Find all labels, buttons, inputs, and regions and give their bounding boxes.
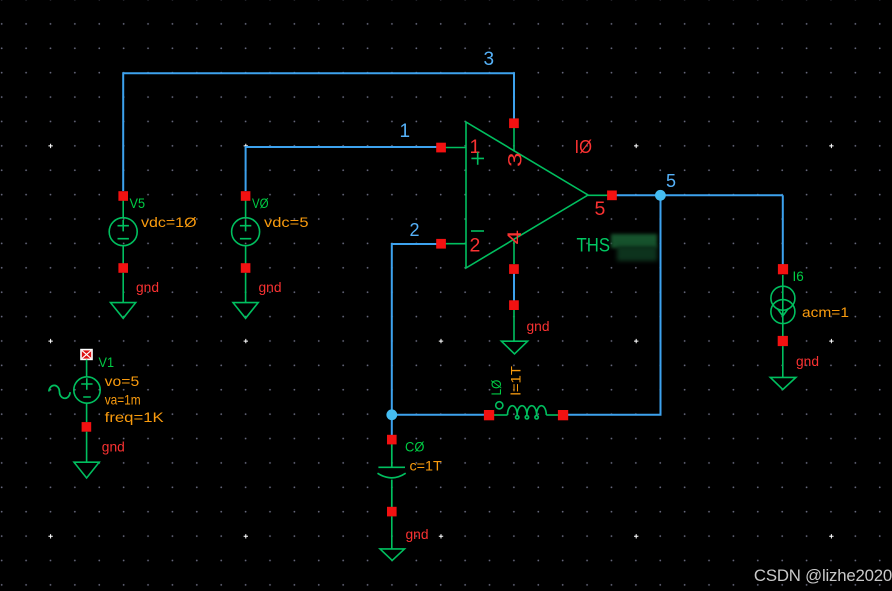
wire junction to inductor left xyxy=(392,414,489,416)
svg-text:4: 4 xyxy=(504,230,526,245)
pin square op-amp minus input xyxy=(436,239,446,249)
watermark xyxy=(754,566,892,586)
pin square gnd below op-amp xyxy=(509,300,519,310)
wire net 3 xyxy=(123,73,514,191)
gnd symbol below V5 xyxy=(111,273,136,319)
svg-text:V1: V1 xyxy=(99,355,115,370)
svg-text:vo=5: vo=5 xyxy=(105,373,140,389)
wire op-amp pin4 to gnd pin xyxy=(513,272,515,302)
gnd symbol below I6 xyxy=(770,346,796,389)
svg-text:gnd: gnd xyxy=(406,527,429,542)
svg-text:gnd: gnd xyxy=(136,280,159,295)
svg-text:1: 1 xyxy=(400,121,411,142)
pin square V5 minus xyxy=(118,263,128,273)
pin square I6 top xyxy=(778,264,788,274)
svg-text:1: 1 xyxy=(470,136,481,158)
sine squiggle of V1 xyxy=(49,385,70,398)
svg-text:vdc=5: vdc=5 xyxy=(264,214,309,230)
svg-text:I6: I6 xyxy=(793,269,804,284)
plus sign inside op-amp xyxy=(471,152,484,165)
svg-text:V5: V5 xyxy=(130,196,146,211)
pin square L0 right xyxy=(558,410,568,420)
svg-text:l=1T: l=1T xyxy=(509,366,524,396)
inductor L0 symbol xyxy=(494,402,558,419)
op-amp top supply stub xyxy=(513,124,515,152)
svg-text:5: 5 xyxy=(666,171,676,191)
gnd symbol below V0 xyxy=(233,273,258,319)
op-amp U triangle xyxy=(466,122,588,268)
wire net 1 xyxy=(246,147,441,191)
pin square V1 minus xyxy=(82,422,92,432)
wire I6 branch vertical xyxy=(782,195,784,266)
pin square I6 bottom xyxy=(778,336,788,346)
op-amp plus input stub xyxy=(441,147,466,149)
capacitor C0 symbol xyxy=(378,444,406,507)
svg-text:5: 5 xyxy=(595,198,606,220)
svg-text:LØ: LØ xyxy=(489,379,504,395)
svg-text:vdc=1Ø: vdc=1Ø xyxy=(141,214,197,230)
svg-text:2: 2 xyxy=(410,220,420,240)
pin square C0 bottom xyxy=(387,507,397,517)
pin square V0 minus xyxy=(241,263,251,273)
svg-text:VØ: VØ xyxy=(252,196,269,211)
pin square V5 plus xyxy=(118,191,128,201)
pin square op-amp output xyxy=(607,191,617,201)
svg-text:va=1m: va=1m xyxy=(105,392,141,408)
svg-text:gnd: gnd xyxy=(102,440,125,455)
gnd symbol below V1 xyxy=(74,432,99,478)
op-amp minus input stub xyxy=(441,243,466,245)
wire junction to C0 xyxy=(391,415,393,437)
svg-text:gnd: gnd xyxy=(259,280,282,295)
svg-text:freq=1K: freq=1K xyxy=(105,409,165,425)
svg-text:c=1T: c=1T xyxy=(410,458,443,474)
svg-text:CØ: CØ xyxy=(405,440,425,455)
svg-text:THS: THS xyxy=(577,234,611,256)
solder junction at net 2 / C0 / L0 xyxy=(386,409,397,420)
sine source V1 symbol xyxy=(74,360,100,423)
unconnected pin marker on V1 xyxy=(81,350,92,360)
wire output net vertical drop to inductor xyxy=(563,195,661,414)
svg-text:gnd: gnd xyxy=(527,319,550,334)
svg-text:IØ: IØ xyxy=(575,136,593,157)
pin square op-amp top supply xyxy=(509,118,519,128)
svg-text:gnd: gnd xyxy=(796,354,819,369)
op-amp output stub xyxy=(588,194,612,196)
svg-text:3: 3 xyxy=(484,49,495,70)
gnd symbol below op-amp xyxy=(501,310,527,354)
wire net 2 xyxy=(392,244,441,415)
wire output net 5 horizontal xyxy=(612,194,783,196)
op-amp bottom supply stub xyxy=(513,239,515,264)
gnd symbol below C0 xyxy=(380,516,405,560)
pin square L0 left xyxy=(484,410,494,420)
pin square C0 top xyxy=(387,435,397,445)
pin square V0 plus xyxy=(241,191,251,201)
svg-text:acm=1: acm=1 xyxy=(802,304,849,320)
svg-text:3: 3 xyxy=(505,153,527,168)
solder junction on net 5 xyxy=(655,190,666,201)
current source I6 xyxy=(771,275,795,336)
minus sign inside op-amp xyxy=(471,230,484,232)
voltage source V0 symbol xyxy=(232,199,260,264)
voltage source V5 symbol xyxy=(109,199,137,264)
svg-text:2: 2 xyxy=(470,235,481,257)
pin square op-amp plus input xyxy=(436,143,446,153)
pin square op-amp bottom supply xyxy=(509,264,519,274)
